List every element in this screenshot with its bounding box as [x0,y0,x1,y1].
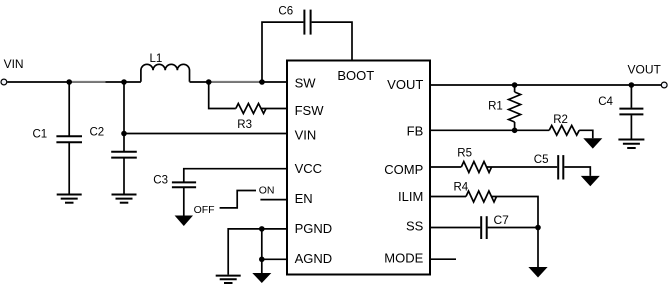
svg-text:FB: FB [407,124,424,139]
svg-text:VOUT: VOUT [628,63,662,77]
svg-text:R2: R2 [553,114,568,126]
svg-text:BOOT: BOOT [337,68,374,83]
svg-text:ILIM: ILIM [398,189,423,204]
svg-text:C3: C3 [153,175,168,187]
svg-text:ON: ON [259,185,275,197]
svg-text:R4: R4 [454,182,469,194]
svg-text:C7: C7 [494,213,510,227]
svg-text:SW: SW [295,76,317,91]
svg-text:VIN: VIN [295,128,317,143]
svg-text:PGND: PGND [295,221,333,236]
svg-text:C1: C1 [33,129,48,141]
svg-text:AGND: AGND [295,251,333,266]
svg-text:VCC: VCC [295,161,322,176]
svg-text:FSW: FSW [295,103,325,118]
svg-text:L1: L1 [150,53,163,65]
svg-text:EN: EN [295,191,313,206]
svg-text:MODE: MODE [384,250,423,265]
svg-text:OFF: OFF [194,204,215,216]
svg-text:C4: C4 [598,96,613,108]
svg-text:R3: R3 [237,119,252,131]
svg-text:VOUT: VOUT [387,77,423,92]
svg-text:SS: SS [406,219,424,234]
svg-text:VIN: VIN [4,57,24,71]
svg-text:C5: C5 [534,154,549,166]
svg-text:R1: R1 [488,101,503,113]
svg-text:C6: C6 [278,5,293,17]
svg-text:C2: C2 [90,127,105,139]
svg-text:R5: R5 [457,147,472,159]
svg-text:COMP: COMP [384,162,423,177]
